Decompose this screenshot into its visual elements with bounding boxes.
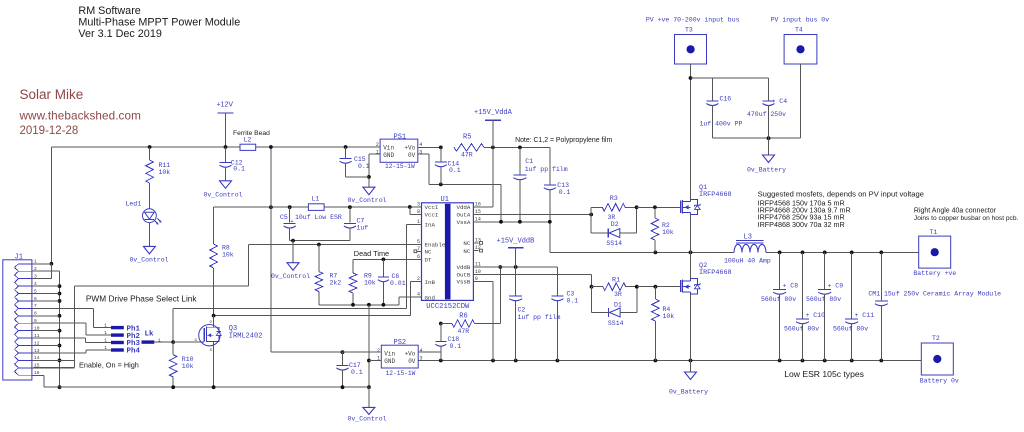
wire OutB bbox=[478, 274, 593, 288]
svg-text:+15V_VddB: +15V_VddB bbox=[497, 238, 535, 246]
wire Q1 drain bbox=[690, 78, 692, 199]
capacitor C4 bbox=[747, 78, 787, 138]
svg-text:1: 1 bbox=[104, 330, 107, 336]
svg-text:Note: C1,2 = Polypropylene fil: Note: C1,2 = Polypropylene film bbox=[515, 137, 612, 144]
svg-text:1: 1 bbox=[417, 219, 420, 225]
op-amp U1 gate driver IC bbox=[414, 196, 482, 311]
svg-text:1uf pp film: 1uf pp film bbox=[525, 166, 568, 173]
svg-text:VccI: VccI bbox=[425, 212, 439, 219]
wire VccI rail bbox=[214, 205, 422, 209]
capacitor C16 bbox=[700, 78, 743, 138]
svg-text:OutB: OutB bbox=[456, 272, 470, 279]
svg-text:Dead Time: Dead Time bbox=[354, 249, 389, 258]
svg-text:0v_Control: 0v_Control bbox=[204, 192, 243, 199]
svg-text:2k2: 2k2 bbox=[330, 280, 342, 287]
resistor R6 bbox=[441, 313, 501, 336]
wire R6 to VddB bbox=[498, 265, 502, 323]
svg-text:+ C4: + C4 bbox=[772, 98, 788, 105]
capacitor C12 bbox=[220, 147, 246, 181]
svg-text:DT: DT bbox=[425, 257, 432, 264]
svg-text:C1: C1 bbox=[525, 158, 533, 165]
svg-text:C17: C17 bbox=[349, 362, 361, 369]
svg-text:0V: 0V bbox=[408, 152, 416, 159]
svg-text:16: 16 bbox=[34, 370, 40, 376]
svg-text:560uf 80v: 560uf 80v bbox=[761, 296, 796, 303]
svg-text:2: 2 bbox=[417, 276, 420, 282]
capacitor C6 bbox=[378, 259, 406, 304]
capacitor C7 bbox=[344, 207, 368, 240]
svg-text:1: 1 bbox=[376, 150, 379, 156]
svg-text:PWM Drive Phase Select Link: PWM Drive Phase Select Link bbox=[86, 294, 198, 304]
wire to bottom control ground bbox=[368, 387, 370, 407]
svg-text:C6: C6 bbox=[392, 273, 400, 280]
svg-text:560uf 80v: 560uf 80v bbox=[806, 296, 841, 303]
author text block bbox=[19, 87, 141, 137]
wire PS1 gnd to ground bbox=[346, 154, 381, 187]
link Ph3 bbox=[104, 338, 140, 349]
svg-text:Vin: Vin bbox=[384, 350, 395, 357]
svg-text:9: 9 bbox=[475, 276, 478, 282]
svg-text:0v_Control: 0v_Control bbox=[271, 273, 310, 280]
svg-text:0.1: 0.1 bbox=[559, 189, 571, 196]
wire J1 p1 stub bbox=[41, 263, 52, 265]
svg-text:CM1 15uf 250v Ceramic Array Mo: CM1 15uf 250v Ceramic Array Module bbox=[868, 291, 1001, 298]
resistor R2 bbox=[651, 207, 674, 252]
resistor R4 bbox=[652, 287, 675, 361]
svg-text:3: 3 bbox=[34, 273, 37, 279]
svg-text:8: 8 bbox=[417, 209, 420, 215]
wire Q3 source bbox=[212, 341, 216, 389]
svg-text:+ C8: + C8 bbox=[783, 283, 799, 290]
svg-text:0.01: 0.01 bbox=[390, 280, 406, 287]
text enable on high bbox=[79, 360, 139, 369]
svg-text:10: 10 bbox=[34, 325, 40, 331]
ground 0v_Battery input bbox=[747, 155, 786, 174]
svg-text:0.1: 0.1 bbox=[450, 343, 462, 350]
capacitor C15 bbox=[340, 145, 370, 177]
wire Q2 source bbox=[690, 294, 692, 361]
svg-text:4: 4 bbox=[417, 292, 420, 298]
svg-text:2019-12-28: 2019-12-28 bbox=[20, 125, 79, 137]
inductor L3 bbox=[724, 234, 771, 265]
svg-text:D1: D1 bbox=[614, 302, 622, 309]
diode D2 bbox=[591, 221, 636, 247]
svg-text:T2: T2 bbox=[932, 335, 940, 342]
wire battery 0v bus bbox=[418, 359, 921, 363]
svg-text:Lk: Lk bbox=[145, 331, 155, 339]
svg-text:+12V: +12V bbox=[217, 102, 234, 109]
ground 0v_Control under Led1 bbox=[130, 246, 169, 263]
capacitor C14 bbox=[435, 147, 461, 184]
resistor R1 bbox=[592, 277, 681, 299]
svg-text:PV input bus 0v: PV input bus 0v bbox=[771, 17, 830, 24]
terminal T1 bbox=[913, 229, 956, 277]
wire VddB line bbox=[478, 265, 557, 269]
connector J1 bbox=[3, 253, 41, 380]
svg-text:4: 4 bbox=[420, 348, 423, 354]
svg-text:+15V_VddA: +15V_VddA bbox=[474, 109, 513, 117]
svg-text:T4: T4 bbox=[795, 26, 803, 33]
svg-text:13: 13 bbox=[475, 237, 481, 243]
svg-text:10k: 10k bbox=[159, 169, 171, 176]
link Lk bbox=[142, 331, 174, 344]
resistor R11 bbox=[146, 145, 171, 209]
wire PS2 gnd bbox=[369, 360, 381, 362]
svg-text:10uf Low ESR: 10uf Low ESR bbox=[295, 214, 342, 221]
svg-text:IRML2402: IRML2402 bbox=[229, 333, 263, 341]
svg-text:100uH 40 Amp: 100uH 40 Amp bbox=[724, 257, 771, 264]
svg-text:2: 2 bbox=[377, 348, 380, 354]
svg-text:L1: L1 bbox=[312, 196, 320, 203]
svg-text:Suggested mosfets, depends on: Suggested mosfets, depends on PV input v… bbox=[758, 190, 924, 199]
svg-text:NC: NC bbox=[425, 249, 432, 256]
svg-text:R2: R2 bbox=[662, 222, 670, 229]
svg-text:R7: R7 bbox=[330, 273, 338, 280]
capacitor C8 bbox=[761, 252, 798, 360]
transistor Q2 bbox=[681, 262, 732, 294]
svg-text:Ferrite Bead: Ferrite Bead bbox=[233, 130, 270, 137]
text PV +ve bus bbox=[646, 17, 740, 24]
wire PS1 0V riser bbox=[418, 154, 501, 222]
capacitor CM1 bbox=[868, 252, 1001, 360]
svg-text:15: 15 bbox=[34, 363, 40, 369]
resistor R5 bbox=[454, 134, 550, 159]
power module PS2 bbox=[377, 339, 423, 377]
resistor R3 bbox=[591, 195, 680, 221]
svg-text:10k: 10k bbox=[222, 251, 234, 258]
wire InB route bbox=[212, 282, 417, 318]
svg-text:8: 8 bbox=[34, 311, 37, 317]
svg-text:12: 12 bbox=[34, 340, 40, 346]
text suggested mosfets bbox=[758, 190, 924, 229]
svg-text:Low ESR 105c types: Low ESR 105c types bbox=[784, 369, 864, 379]
svg-text:L2: L2 bbox=[244, 136, 252, 143]
link Ph4 bbox=[104, 345, 140, 356]
svg-text:R5: R5 bbox=[463, 134, 471, 142]
wire InA route bbox=[406, 225, 416, 309]
svg-text:6: 6 bbox=[417, 254, 420, 260]
wire gnd rail of R7 R9 C6 bbox=[319, 297, 417, 307]
svg-text:VssB: VssB bbox=[456, 279, 470, 286]
capacitor C9 bbox=[806, 252, 843, 360]
svg-text:NC: NC bbox=[463, 248, 470, 255]
svg-text:RM Software: RM Software bbox=[78, 5, 140, 17]
svg-text:VddA: VddA bbox=[456, 204, 470, 211]
wire Q1 source bbox=[690, 214, 692, 252]
svg-text:7: 7 bbox=[34, 303, 37, 309]
svg-text:560uf 80v: 560uf 80v bbox=[784, 326, 819, 333]
node gate A bar bbox=[591, 207, 636, 233]
transistor Q3 bbox=[195, 321, 263, 353]
svg-text:11: 11 bbox=[34, 333, 40, 339]
svg-text:C7: C7 bbox=[357, 218, 365, 225]
capacitor C17 bbox=[337, 350, 363, 389]
text PWM drive bbox=[86, 294, 198, 304]
svg-text:Battery +ve: Battery +ve bbox=[913, 270, 956, 277]
svg-text:0.1: 0.1 bbox=[358, 163, 370, 170]
note text bbox=[515, 137, 612, 144]
svg-text:IRFP4668: IRFP4668 bbox=[699, 191, 732, 199]
svg-text:5: 5 bbox=[34, 288, 37, 294]
svg-text:Solar Mike: Solar Mike bbox=[20, 87, 84, 102]
capacitor C2 bbox=[509, 267, 560, 361]
wire line A phase to InA bbox=[173, 309, 406, 343]
svg-text:+ C11: + C11 bbox=[855, 312, 875, 319]
svg-text:0V: 0V bbox=[408, 358, 416, 365]
svg-text:7: 7 bbox=[417, 246, 420, 252]
wire J1 p14 to enable riser bbox=[41, 359, 75, 361]
svg-text:560uf 80v: 560uf 80v bbox=[833, 326, 868, 333]
svg-text:Battery 0v: Battery 0v bbox=[920, 378, 959, 385]
wire J1 p3 to p1 bbox=[41, 278, 52, 280]
svg-text:10k: 10k bbox=[663, 313, 675, 320]
capacitor C1 bbox=[513, 147, 567, 221]
svg-text:12-15-1W: 12-15-1W bbox=[385, 163, 415, 170]
wire C5 C7 bottom rail bbox=[290, 239, 350, 263]
terminal T4 bbox=[784, 26, 817, 64]
svg-text:R4: R4 bbox=[663, 306, 671, 313]
svg-text:Led1: Led1 bbox=[126, 201, 142, 208]
svg-text:R6: R6 bbox=[459, 313, 467, 321]
svg-text:9: 9 bbox=[34, 318, 37, 324]
svg-text:10k: 10k bbox=[364, 279, 376, 286]
svg-text:OutA: OutA bbox=[456, 212, 470, 219]
text dead time bbox=[354, 249, 389, 258]
wire J1 pin1 riser bbox=[50, 147, 54, 279]
ground 0v_Control under C12 bbox=[204, 181, 243, 199]
ground 0v_Control under PS1 bbox=[348, 187, 387, 204]
svg-text:Ver 3.1 Dec 2019: Ver 3.1 Dec 2019 bbox=[78, 28, 161, 40]
svg-text:Enable, On = High: Enable, On = High bbox=[79, 360, 139, 369]
svg-text:InB: InB bbox=[425, 279, 436, 286]
svg-text:VccI: VccI bbox=[425, 204, 439, 211]
svg-text:10k: 10k bbox=[182, 363, 194, 370]
supply +15V_VddA bbox=[474, 109, 513, 147]
ground 0v_Control near C5 bbox=[271, 263, 310, 280]
svg-text:Multi-Phase MPPT Power Module: Multi-Phase MPPT Power Module bbox=[78, 17, 240, 29]
wire J1 p7 to Ph1 bbox=[41, 308, 112, 327]
svg-text:VddB: VddB bbox=[456, 264, 470, 271]
+12V supply symbol bbox=[217, 102, 234, 149]
svg-text:C2: C2 bbox=[518, 307, 526, 314]
capacitor C5 bbox=[284, 207, 296, 240]
link Ph2 bbox=[104, 330, 140, 341]
svg-text:C5: C5 bbox=[280, 214, 288, 221]
wire J1 ground rail bbox=[41, 271, 62, 389]
svg-text:0.1: 0.1 bbox=[449, 167, 461, 174]
wire input cap top rail bbox=[691, 77, 769, 79]
svg-text:12: 12 bbox=[475, 245, 481, 251]
wire Lk node to Q3 gate bbox=[171, 340, 199, 344]
svg-text:0v_Battery: 0v_Battery bbox=[747, 167, 786, 174]
resistor R10 bbox=[169, 342, 193, 389]
svg-text:14: 14 bbox=[34, 355, 40, 361]
svg-text:16: 16 bbox=[475, 201, 481, 207]
svg-text:Joins to copper busbar on host: Joins to copper busbar on host pcb. bbox=[914, 215, 1019, 222]
svg-text:3: 3 bbox=[419, 150, 422, 156]
svg-text:R3: R3 bbox=[610, 195, 618, 203]
svg-text:0v_Control: 0v_Control bbox=[348, 415, 387, 422]
svg-text:6: 6 bbox=[34, 296, 37, 302]
resistor R7 bbox=[315, 245, 341, 305]
svg-text:0v_Battery: 0v_Battery bbox=[669, 389, 708, 396]
svg-text:Right Angle 40a connector: Right Angle 40a connector bbox=[914, 207, 997, 214]
svg-text:Vin: Vin bbox=[383, 144, 394, 151]
text low esr bbox=[784, 369, 864, 379]
svg-text:0.1: 0.1 bbox=[351, 369, 363, 376]
svg-text:0v_Control: 0v_Control bbox=[348, 197, 387, 204]
svg-text:3R: 3R bbox=[614, 291, 622, 298]
svg-text:GND: GND bbox=[384, 358, 395, 365]
diode D1 bbox=[592, 302, 637, 327]
wire J1 p11 to Ph3 bbox=[41, 338, 112, 342]
inductor L1 bbox=[308, 196, 324, 211]
svg-text:0v_Control: 0v_Control bbox=[130, 257, 169, 264]
wire Q3 drain bbox=[213, 316, 215, 328]
capacitor C5 label bbox=[280, 214, 342, 221]
svg-text:47R: 47R bbox=[458, 328, 470, 335]
svg-text:1: 1 bbox=[104, 345, 107, 351]
terminal T3 bbox=[675, 26, 707, 64]
wire +12v control rail bbox=[51, 146, 380, 148]
svg-text:D2: D2 bbox=[611, 221, 619, 228]
svg-text:1: 1 bbox=[34, 259, 37, 265]
text right angle connector bbox=[914, 207, 1019, 222]
node gate B bar bbox=[592, 287, 637, 313]
svg-text:Gnd: Gnd bbox=[425, 294, 435, 301]
wire T4 down bbox=[800, 64, 802, 138]
wire 0v battery input tap bbox=[768, 138, 770, 155]
wire enable net bbox=[33, 243, 416, 368]
svg-text:InA: InA bbox=[425, 222, 436, 229]
svg-text:2: 2 bbox=[376, 142, 379, 148]
resistor R8 bbox=[210, 207, 234, 315]
svg-text:1uf: 1uf bbox=[357, 225, 369, 232]
svg-text:+ C9: + C9 bbox=[828, 283, 844, 290]
svg-text:1uf pp film: 1uf pp film bbox=[518, 314, 561, 321]
capacitor C10 bbox=[784, 252, 825, 360]
svg-text:IRFP4868 300v 70a 32 mR: IRFP4868 300v 70a 32 mR bbox=[758, 220, 845, 229]
svg-text:SS14: SS14 bbox=[606, 240, 622, 247]
power module PS1 bbox=[376, 134, 422, 170]
svg-text:IRFP4668: IRFP4668 bbox=[699, 269, 732, 277]
wire VddA riser bbox=[478, 147, 493, 206]
wire input cap bottom rail bbox=[712, 136, 800, 140]
svg-text:VssA: VssA bbox=[456, 219, 470, 226]
terminal T2 bbox=[920, 335, 959, 385]
svg-text:Ph4: Ph4 bbox=[127, 348, 141, 356]
svg-text:47R: 47R bbox=[461, 152, 473, 159]
wire OutA bbox=[478, 213, 593, 217]
svg-text:5: 5 bbox=[417, 239, 420, 245]
ferrite bead L2 bbox=[233, 130, 270, 150]
wire PS2 vin bbox=[342, 351, 381, 353]
svg-text:1: 1 bbox=[104, 323, 107, 329]
link Ph1 bbox=[104, 323, 140, 334]
wire DT net bbox=[353, 258, 417, 273]
svg-text:T3: T3 bbox=[685, 26, 693, 33]
svg-text:1: 1 bbox=[104, 338, 107, 344]
text PV 0v bus bbox=[771, 17, 830, 24]
wire +12v to PS2 riser bbox=[269, 145, 342, 352]
capacitor C3 bbox=[551, 267, 578, 361]
wire VccI pins tie bbox=[408, 205, 417, 214]
LED Led1 bbox=[126, 201, 162, 247]
wire J1 p9 to Ph2 bbox=[41, 323, 112, 335]
capacitor C11 bbox=[833, 252, 874, 360]
svg-text:2: 2 bbox=[34, 266, 37, 272]
svg-text:NC: NC bbox=[463, 240, 470, 247]
svg-text:0.1: 0.1 bbox=[567, 297, 579, 304]
wire J1 p16 down bbox=[41, 375, 369, 387]
wire Q2 drain bbox=[690, 252, 692, 278]
svg-text:12-15-1W: 12-15-1W bbox=[386, 370, 416, 377]
supply +15V_VddB bbox=[497, 238, 535, 268]
wire VssA bbox=[478, 220, 551, 224]
svg-text:www.thebackshed.com: www.thebackshed.com bbox=[19, 110, 141, 123]
svg-text:4: 4 bbox=[34, 281, 37, 287]
wire J1 p13 to Ph4 bbox=[41, 350, 112, 353]
svg-text:+ C10: + C10 bbox=[806, 312, 826, 319]
svg-text:0.1: 0.1 bbox=[233, 166, 245, 173]
svg-text:+Vo: +Vo bbox=[405, 350, 416, 357]
wire switch node bus bbox=[550, 251, 919, 255]
svg-text:PV +ve 70-200v input bus: PV +ve 70-200v input bus bbox=[646, 17, 740, 24]
ground 0v_Battery under Q2 bbox=[669, 372, 708, 396]
wire VssB bbox=[478, 281, 493, 360]
wire T3 down bbox=[689, 64, 693, 80]
capacitor C13 bbox=[544, 147, 571, 252]
svg-text:1uf 400v PP: 1uf 400v PP bbox=[700, 121, 743, 128]
svg-text:10k: 10k bbox=[662, 229, 674, 236]
wire control gnd riser bbox=[367, 305, 371, 389]
ground 0v_Control bottom bbox=[348, 407, 387, 422]
svg-text:470uf 250v: 470uf 250v bbox=[747, 111, 786, 118]
title text block bbox=[78, 5, 240, 40]
svg-text:GND: GND bbox=[383, 152, 394, 159]
wire J1 p15 stub bbox=[41, 367, 75, 369]
wire PS2 +Vo node bbox=[418, 322, 442, 353]
svg-text:UCC2152CDW: UCC2152CDW bbox=[426, 303, 470, 311]
wire 0v battery tap bbox=[690, 361, 692, 373]
svg-text:C18: C18 bbox=[448, 336, 460, 343]
svg-text:3: 3 bbox=[417, 202, 420, 208]
capacitor C18 bbox=[435, 324, 461, 361]
svg-text:T1: T1 bbox=[930, 229, 938, 236]
svg-text:13: 13 bbox=[34, 348, 40, 354]
resistor R9 bbox=[349, 273, 376, 305]
transistor Q1 bbox=[681, 184, 732, 214]
svg-text:C16: C16 bbox=[720, 96, 732, 103]
svg-text:+Vo: +Vo bbox=[404, 144, 415, 151]
wire PS1 +Vo to R5 node bbox=[418, 146, 443, 150]
svg-text:SS14: SS14 bbox=[608, 320, 624, 327]
